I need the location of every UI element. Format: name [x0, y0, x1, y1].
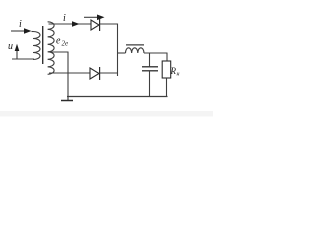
svg-text:н: н [177, 72, 180, 78]
svg-text:2e: 2e [62, 40, 69, 48]
svg-text:e: e [56, 36, 61, 47]
svg-text:u: u [8, 41, 13, 52]
svg-text:i: i [63, 13, 66, 24]
svg-text:R: R [170, 66, 177, 76]
svg-text:i: i [19, 19, 22, 30]
